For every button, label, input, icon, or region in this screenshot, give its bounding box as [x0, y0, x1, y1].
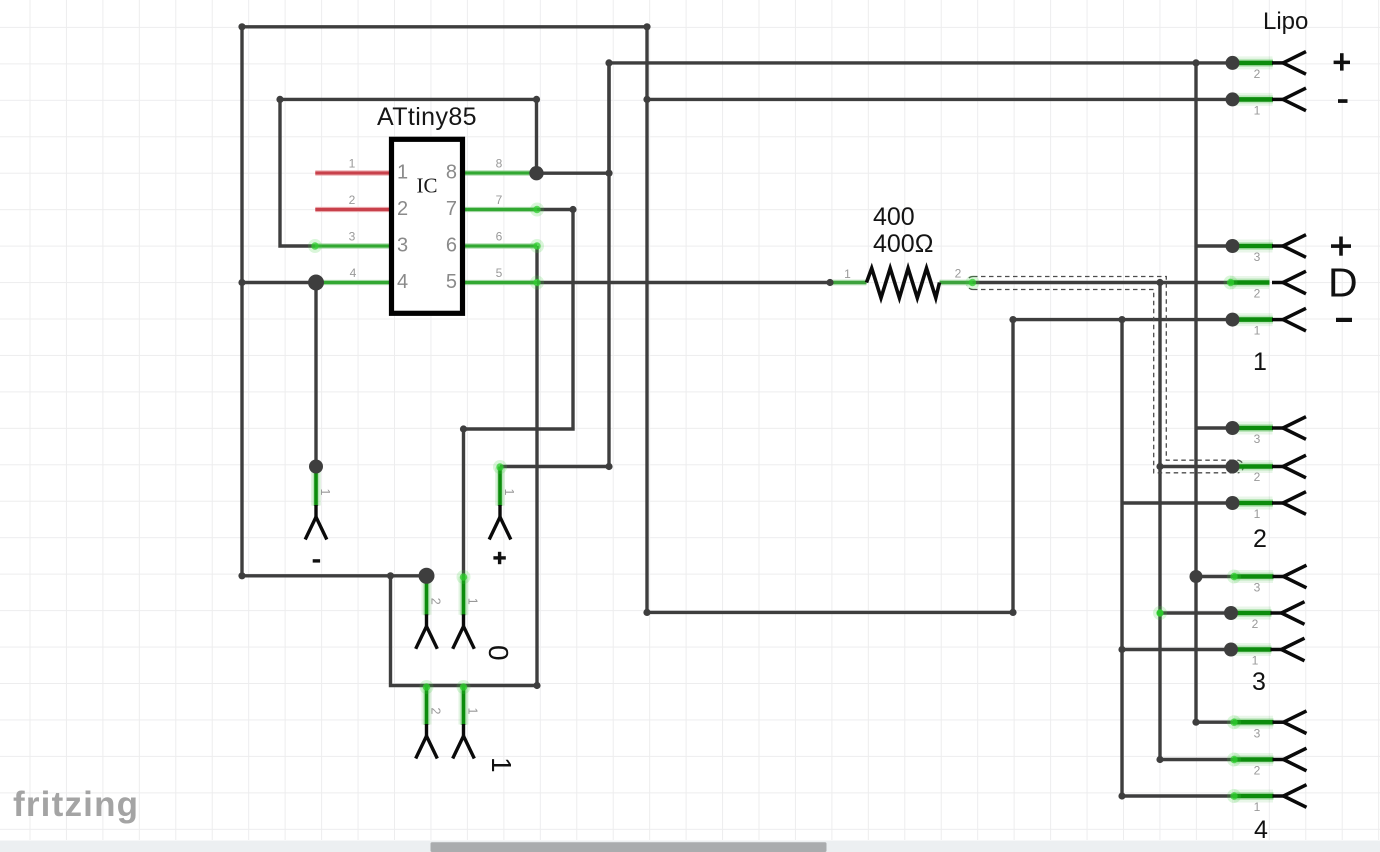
svg-text:2: 2	[397, 198, 408, 220]
svg-text:0: 0	[483, 645, 514, 661]
wire group3 pin1 stub	[1122, 648, 1231, 651]
svg-text:2: 2	[955, 267, 962, 281]
svg-text:5: 5	[496, 266, 503, 280]
node loop left corner	[276, 96, 283, 103]
node gnd mid corner	[643, 609, 650, 616]
svg-text:3: 3	[1254, 250, 1261, 264]
svg-text:2: 2	[429, 708, 443, 715]
label plus	[493, 556, 505, 559]
svg-text:7: 7	[446, 198, 457, 220]
svg-text:1: 1	[1254, 324, 1261, 338]
connector group4 pin1	[1227, 785, 1307, 814]
connector group2 pin1	[1226, 492, 1307, 521]
wire plus header link	[500, 63, 609, 467]
wire gnd to header0 pin2	[242, 574, 427, 577]
svg-text:2: 2	[1254, 287, 1261, 301]
wire group2 pin1 stub	[1122, 501, 1233, 504]
node selected wire corner	[1156, 463, 1163, 470]
svg-text:8: 8	[446, 162, 457, 184]
svg-text:Lipo: Lipo	[1263, 8, 1308, 35]
connector minus header	[305, 460, 332, 563]
svg-text:2: 2	[1252, 617, 1259, 631]
wire Lipo minus feed	[647, 98, 1233, 101]
svg-text:ATtiny85: ATtiny85	[377, 103, 477, 131]
connector group4 pin3	[1227, 711, 1307, 741]
svg-text:D: D	[1328, 260, 1358, 306]
svg-text:400Ω: 400Ω	[873, 230, 933, 258]
wire gnd right drop	[1120, 320, 1123, 796]
svg-text:1: 1	[318, 489, 332, 496]
svg-text:2: 2	[349, 193, 356, 207]
node vcc right junction	[1192, 59, 1199, 66]
svg-text:1: 1	[1254, 104, 1261, 118]
node gnd bottom corner	[238, 572, 245, 579]
connector Lipo pin1 (-)	[1226, 88, 1348, 117]
node plus drop junction	[605, 463, 612, 470]
wire VCC right drop	[1194, 63, 1197, 722]
wire VCC top run	[537, 63, 1233, 173]
node header1 corner right	[533, 682, 540, 689]
svg-text:1: 1	[844, 267, 851, 281]
IC pin7 leg	[461, 207, 538, 212]
connector plus header	[489, 460, 516, 564]
svg-text:1: 1	[466, 598, 480, 605]
wire pin5 to resistor	[537, 281, 830, 284]
connector group1 pin2 (D)	[1224, 260, 1358, 306]
wire group2 pin3 stub	[1196, 426, 1233, 429]
node pin8 vcc junction	[605, 170, 612, 177]
connector group3 pin2	[1224, 602, 1305, 631]
wire group1 minus feed	[1013, 318, 1233, 321]
svg-text:6: 6	[446, 235, 457, 257]
node gnd right corner	[1009, 316, 1016, 323]
connector group2 pin2	[1226, 455, 1307, 484]
node pin8 terminal	[529, 166, 543, 180]
node group3 pin1 junction	[1118, 646, 1125, 653]
IC pin6 leg	[461, 243, 538, 248]
resistor R1 400 ohm	[826, 203, 979, 298]
wire group1 pin3 stub	[1196, 244, 1233, 247]
svg-text:3: 3	[1254, 727, 1261, 741]
svg-text:1: 1	[1252, 654, 1259, 668]
label plus	[1331, 244, 1351, 248]
svg-text:6: 6	[496, 230, 503, 244]
wire pin7 to header0 pin1	[464, 210, 574, 577]
node gnd drop junction	[1118, 316, 1125, 323]
connector header1 pin1	[453, 680, 480, 759]
resistor pin2 glow	[966, 276, 980, 290]
svg-text:1: 1	[1254, 507, 1261, 521]
IC pin4 leg	[316, 280, 391, 285]
IC U1 ATtiny85	[308, 103, 544, 313]
IC inner pin numbers	[397, 162, 457, 294]
node D wire junction	[1156, 279, 1163, 286]
connector group1 pin1 (-)	[1226, 308, 1353, 337]
IC pin5 leg	[461, 280, 538, 285]
IC leg pin-number labels	[349, 157, 503, 281]
connector Lipo pin2 (+)	[1226, 52, 1351, 81]
connector header1 pin2	[416, 680, 443, 759]
svg-text:1: 1	[397, 162, 408, 184]
node group4 pin3 junction	[1192, 719, 1199, 726]
label minus	[1336, 318, 1352, 322]
svg-text:2: 2	[1254, 764, 1261, 778]
node group3 pin3 terminal	[1190, 570, 1203, 583]
wire group3 pin2 stub	[1160, 611, 1231, 614]
node gnd mid right corner	[1009, 609, 1016, 616]
svg-text:IC: IC	[417, 174, 438, 198]
svg-text:8: 8	[496, 157, 503, 171]
wire pin8 to pin3 loop	[280, 99, 537, 246]
svg-text:3: 3	[349, 230, 356, 244]
IC pin3 leg	[315, 243, 391, 248]
connector group4 pin2	[1227, 748, 1307, 777]
scrollbar track	[0, 841, 1380, 852]
node group4 pin1 junction	[1118, 792, 1125, 799]
svg-text:3: 3	[1254, 581, 1261, 595]
svg-text:4: 4	[397, 271, 408, 293]
scrollbar thumb	[431, 842, 827, 852]
wire group4 pin3 stub	[1196, 721, 1233, 724]
wire pin4 gnd stub	[242, 281, 316, 284]
node pin6 drop junction	[387, 572, 394, 579]
svg-text:2: 2	[1254, 67, 1261, 81]
svg-text:3: 3	[1252, 668, 1266, 696]
node top-right corner	[643, 23, 650, 30]
svg-text:3: 3	[397, 235, 408, 257]
connector group2 pin3	[1226, 417, 1307, 446]
svg-text:1: 1	[502, 489, 516, 496]
wire top GND run	[242, 27, 1013, 613]
svg-text:1: 1	[1254, 800, 1261, 814]
IC pin8 leg	[461, 170, 537, 175]
svg-text:4: 4	[350, 266, 357, 280]
node header0 pin2 terminal	[419, 568, 435, 584]
svg-text:1: 1	[1253, 348, 1267, 376]
node pin4 terminal	[308, 275, 324, 291]
svg-text:3: 3	[1254, 432, 1261, 446]
label plus	[1334, 61, 1350, 65]
svg-text:1: 1	[486, 757, 517, 773]
node loop right corner	[533, 96, 540, 103]
node header0 pin1 corner	[460, 425, 467, 432]
IC pin2 leg (red)	[315, 207, 390, 212]
node group4 pin2 junction	[1156, 756, 1163, 763]
wire selected vertical run	[1160, 283, 1233, 467]
node top-left corner	[238, 23, 245, 30]
connector header0 pin1	[453, 570, 480, 649]
label minus	[1338, 99, 1348, 103]
node lipo minus junction	[643, 96, 650, 103]
node pin7 corner	[569, 206, 576, 213]
svg-text:1: 1	[466, 708, 480, 715]
svg-text:2: 2	[429, 598, 443, 605]
wire pin6 drop	[391, 246, 538, 686]
svg-text:fritzing: fritzing	[13, 785, 139, 824]
connector group3 pin3	[1227, 565, 1307, 594]
connector group3 pin1	[1224, 638, 1305, 667]
svg-text:400: 400	[873, 203, 915, 231]
wire minus header drop	[314, 283, 317, 467]
svg-text:7: 7	[496, 193, 503, 207]
IC body	[392, 139, 463, 313]
svg-text:2: 2	[1254, 470, 1261, 484]
wire group4 pin1 stub	[1122, 794, 1233, 797]
wire group4 pin2 stub	[1160, 758, 1233, 761]
resistor pin1 dot	[826, 279, 833, 286]
connector group1 pin3 (+)	[1226, 235, 1352, 264]
IC pin1 leg (red)	[315, 170, 390, 175]
svg-text:1: 1	[349, 157, 356, 171]
wire resistor to D pin	[973, 281, 1230, 284]
node pin4 gnd junction	[238, 279, 245, 286]
connector header0 pin2	[416, 576, 443, 649]
svg-text:4: 4	[1254, 816, 1268, 844]
node group3 pin2 green junction	[1157, 610, 1163, 616]
svg-text:5: 5	[446, 271, 457, 293]
label minus	[313, 559, 320, 562]
wire group3 pin3 stub	[1196, 575, 1233, 578]
svg-text:2: 2	[1253, 525, 1267, 553]
selection outline of wire resistor-to-group2	[967, 277, 1244, 473]
node vcc corner	[605, 59, 612, 66]
wire mid vertical continuation	[1158, 467, 1161, 760]
